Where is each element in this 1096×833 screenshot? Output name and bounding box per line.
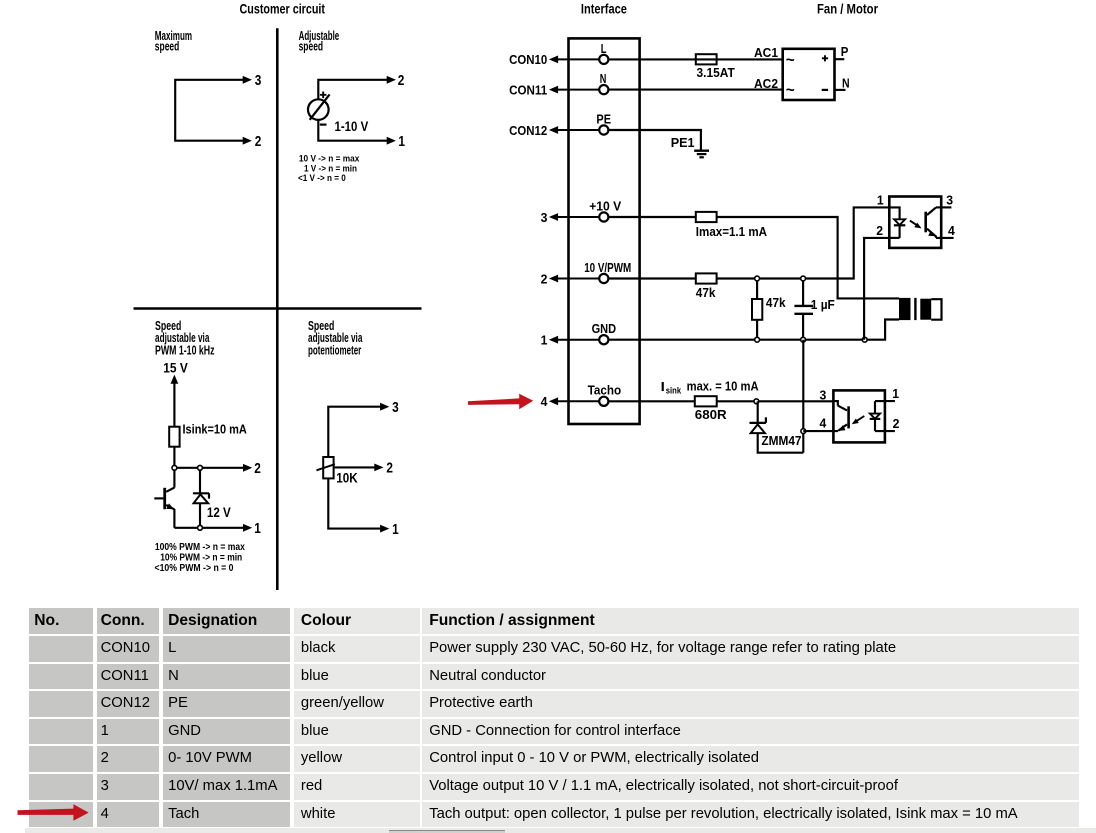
wire 15V to resistor	[173, 383, 175, 427]
svg-text:1: 1	[254, 521, 261, 537]
table row CON11 N	[29, 664, 93, 690]
capacitor C1 1 uF	[802, 279, 804, 306]
junction GND-R5	[755, 337, 760, 342]
transformer T1 primary winding	[899, 298, 911, 320]
resistor R5 47k (shunt)	[756, 279, 758, 300]
wire Tacho to optocoupler U2 pin 3	[608, 400, 833, 402]
U1 pin 2 wire to GND	[864, 238, 889, 340]
wire resistor to node A	[173, 447, 175, 468]
wire N to AC2	[608, 89, 783, 91]
optocoupler U2 box	[833, 390, 885, 442]
svg-text:Customer circuit: Customer circuit	[240, 1, 326, 16]
svg-text:10K: 10K	[336, 470, 358, 485]
svg-text:2: 2	[386, 461, 393, 477]
stub P	[835, 58, 845, 60]
svg-text:12 V: 12 V	[207, 505, 231, 520]
svg-text:47k: 47k	[696, 285, 716, 300]
zener junction on node A wire	[198, 465, 203, 470]
svg-text:4: 4	[948, 223, 956, 238]
svg-text:1: 1	[877, 192, 884, 207]
bottom partial cell	[389, 830, 505, 833]
wire GND to transformer bottom	[608, 320, 899, 340]
table row CON12 PE	[29, 691, 93, 717]
red callout arrow to pin 4	[468, 394, 533, 410]
wire +10V to transformer top	[608, 217, 899, 298]
zener junction on bottom wire	[198, 525, 203, 530]
svg-text:CON12: CON12	[509, 123, 547, 138]
svg-text:1: 1	[398, 134, 405, 150]
transformer T1 core	[914, 298, 916, 320]
wire source to pin 2 (Q2)	[318, 80, 387, 100]
svg-text:+10 V: +10 V	[589, 198, 621, 213]
red callout arrow to table row 4	[0, 800, 100, 826]
junction 10V/PWM-C1	[801, 276, 806, 281]
wire node A to pin 2 (Q3)	[174, 467, 243, 469]
divider vertical line	[276, 28, 279, 590]
junction GND-U1 pin2	[862, 337, 867, 342]
potentiometer R2 10K	[323, 457, 333, 478]
svg-text:I: I	[661, 379, 665, 394]
wire emitter to pin 1 (Q3)	[174, 527, 243, 529]
svg-text:2: 2	[541, 271, 548, 286]
svg-text:speed: speed	[155, 40, 180, 54]
svg-text:Imax=1.1 mA: Imax=1.1 mA	[696, 224, 768, 239]
svg-text:GND: GND	[592, 321, 617, 336]
resistor Isink=10 mA	[169, 427, 179, 447]
svg-text:10% PWM -> n = min: 10% PWM -> n = min	[160, 553, 242, 564]
wire 10V/PWM to optocoupler U1 pin 1	[608, 207, 889, 278]
svg-text:1: 1	[892, 386, 899, 401]
svg-text:3: 3	[820, 387, 827, 402]
table row 3 10V/ max 1.1mA	[29, 774, 93, 800]
svg-text:1: 1	[392, 522, 399, 538]
svg-text:2: 2	[398, 73, 405, 89]
svg-text:1 µF: 1 µF	[811, 297, 835, 312]
resistor R3 Imax=1.1 mA	[696, 212, 717, 222]
transistor Q1 open collector	[166, 488, 174, 492]
arrow to pin 1 (Q3)	[243, 524, 252, 532]
U1 pin 4 stub	[936, 237, 954, 239]
table row 1 GND	[29, 719, 93, 745]
svg-text:Fan / Motor: Fan / Motor	[817, 1, 879, 16]
svg-text:~: ~	[786, 52, 795, 69]
svg-text:N: N	[600, 71, 607, 86]
voltage source V1 1-10 V	[308, 99, 329, 120]
arrow to pin 3 (Q4)	[380, 403, 389, 411]
arrow to pin 3 (Q1)	[243, 76, 252, 84]
svg-text:4: 4	[541, 394, 549, 409]
svg-text:potentiometer: potentiometer	[308, 343, 361, 357]
svg-text:PE1: PE1	[671, 135, 695, 150]
svg-text:Tacho: Tacho	[588, 383, 622, 398]
wire wiper to pin 2 (Q4)	[334, 466, 375, 468]
svg-text:~: ~	[786, 82, 795, 99]
svg-text:Isink=10 mA: Isink=10 mA	[183, 422, 248, 437]
svg-text:15 V: 15 V	[163, 359, 188, 375]
svg-text:47k: 47k	[766, 295, 786, 310]
arrow to pin 1 (Q2)	[387, 137, 396, 145]
junction Tacho-zener	[754, 399, 759, 404]
transformer T1 secondary winding	[920, 299, 931, 320]
interface connector box	[569, 38, 640, 424]
svg-text:100% PWM -> n = max: 100% PWM -> n = max	[155, 542, 245, 553]
resistor R6 680R	[695, 396, 717, 406]
node A junction	[172, 465, 177, 470]
zener diode D1 12 V	[193, 493, 209, 498]
U1 phototransistor	[927, 207, 936, 215]
wire source to pin 1 (Q2)	[318, 120, 387, 141]
stub N	[835, 89, 846, 91]
arrow to pin 1 (Q4)	[380, 525, 389, 533]
table header row	[29, 608, 93, 634]
divider horizontal line	[134, 307, 422, 310]
svg-text:3: 3	[392, 400, 399, 416]
junction 10V/PWM-R5	[755, 276, 760, 281]
svg-text:2: 2	[876, 223, 883, 238]
U1 pin 3 stub	[936, 206, 951, 208]
junction zener return - U2 pin 4	[801, 429, 806, 434]
wire node A to zener	[199, 468, 201, 493]
svg-text:1: 1	[541, 333, 548, 348]
wire node A to transistor collector	[173, 468, 175, 488]
svg-text:<10% PWM -> n = 0: <10% PWM -> n = 0	[155, 563, 234, 574]
arrow up to 15 V	[171, 375, 179, 384]
polarity + (V1)	[320, 92, 327, 99]
rectifier + mark	[822, 55, 828, 61]
svg-text:2: 2	[254, 461, 261, 477]
svg-text:3.15AT: 3.15AT	[697, 65, 735, 80]
U1 light arrow	[910, 221, 917, 225]
fuse F1 3.15AT	[696, 54, 717, 64]
wire transistor emitter down	[173, 509, 175, 528]
table row CON10 L	[29, 636, 93, 662]
ground PE1	[694, 149, 709, 151]
svg-text:AC1: AC1	[754, 45, 778, 60]
svg-text:680R: 680R	[695, 407, 728, 422]
svg-text:L: L	[601, 41, 607, 56]
arrow to pin 2 (Q1)	[243, 137, 252, 145]
arrow to pin 2 (Q3)	[243, 464, 252, 472]
svg-text:PE: PE	[596, 111, 611, 126]
svg-text:3: 3	[541, 210, 548, 225]
svg-text:speed: speed	[299, 40, 324, 54]
junction GND-C1	[801, 337, 806, 342]
wire L to fuse and AC1	[608, 58, 783, 60]
U1 internal LED	[889, 207, 899, 219]
wire zener return to GND	[802, 340, 804, 453]
arrow to pin 2 (Q4)	[374, 464, 383, 472]
svg-text:ZMM47: ZMM47	[761, 433, 801, 448]
wire PE to ground	[608, 130, 701, 150]
zener diode D2 ZMM47	[757, 401, 759, 422]
U2 pin 2 stub	[875, 430, 895, 432]
svg-text:3: 3	[946, 192, 953, 207]
svg-text:10 V/PWM: 10 V/PWM	[584, 260, 631, 275]
svg-text:CON11: CON11	[509, 82, 547, 97]
svg-text:sink: sink	[666, 386, 682, 396]
U2 phototransistor	[833, 401, 837, 406]
resistor R4 47k (series)	[696, 273, 717, 283]
arrow to pin 2 (Q2)	[387, 76, 396, 84]
svg-text:N: N	[842, 76, 850, 91]
svg-text:2: 2	[893, 416, 900, 431]
U2 pin 1 stub	[875, 400, 895, 402]
polarity - (V1)	[320, 123, 327, 125]
transformer T1 secondary short bracket	[931, 299, 941, 320]
svg-text:2: 2	[255, 134, 262, 150]
wire pot bottom to pin 1 (Q4)	[328, 478, 380, 528]
svg-text:1-10 V: 1-10 V	[335, 118, 369, 134]
table row 4 Tach	[29, 802, 93, 828]
svg-text:3: 3	[255, 73, 262, 89]
wire Q1 jumper 3-2	[175, 80, 244, 141]
bottom partial band	[25, 828, 1096, 833]
svg-text:<1 V -> n = 0: <1 V -> n = 0	[298, 172, 346, 183]
svg-text:4: 4	[820, 416, 828, 431]
bridge rectifier B1	[783, 49, 835, 100]
svg-text:Interface: Interface	[581, 1, 627, 16]
rectifier - mark	[822, 89, 828, 91]
U2 pin 4 wire	[803, 430, 838, 432]
svg-text:max. = 10 mA: max. = 10 mA	[687, 379, 760, 394]
table row 2 0- 10V PWM	[29, 746, 93, 772]
svg-text:CON10: CON10	[509, 52, 547, 67]
svg-text:AC2: AC2	[754, 76, 778, 91]
U2 light arrow	[856, 416, 864, 421]
optocoupler U1 box	[889, 197, 941, 248]
svg-text:P: P	[841, 44, 849, 59]
svg-text:PWM 1-10 kHz: PWM 1-10 kHz	[155, 343, 215, 357]
U2 internal LED	[874, 401, 876, 414]
wire pot top to pin 3 (Q4)	[328, 407, 380, 457]
